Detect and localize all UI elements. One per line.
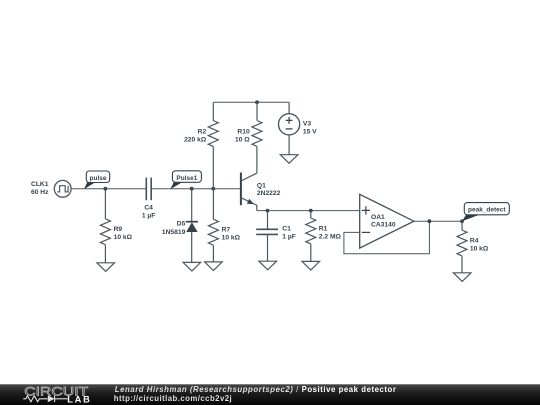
clock source CLK1 <box>54 180 71 197</box>
svg-text:peak_detect: peak_detect <box>468 207 506 214</box>
top rail wire <box>213 101 289 103</box>
emitter rail wire to op-amp <box>257 210 360 212</box>
resistor R7 <box>208 189 218 262</box>
junction dot feedback tap <box>428 219 432 223</box>
svg-text:R10: R10 <box>237 129 250 136</box>
flag peak_detect <box>462 203 509 222</box>
svg-text:LAB: LAB <box>67 395 91 405</box>
svg-text:1N5819: 1N5819 <box>162 229 186 236</box>
junction dot C1 tap <box>266 209 270 213</box>
svg-text:R7: R7 <box>222 226 231 233</box>
ground below R7 <box>205 262 223 271</box>
capacitor C4 <box>146 178 151 201</box>
svg-text:CA3140: CA3140 <box>371 222 396 229</box>
svg-text:15 V: 15 V <box>303 128 317 135</box>
flag pulse <box>84 171 110 189</box>
svg-text:10 kΩ: 10 kΩ <box>114 234 133 241</box>
feedback wire output to inverting input <box>344 221 430 254</box>
CircuitLab logo wordmark <box>24 385 88 399</box>
svg-text:Q1: Q1 <box>257 183 266 190</box>
voltage source V3 <box>279 102 300 154</box>
junction dot R10 top <box>255 100 259 104</box>
svg-text:C4: C4 <box>144 205 153 212</box>
junction dot R1 tap <box>309 209 313 213</box>
resistor R1 <box>306 211 316 262</box>
svg-text:Lenard Hirshman (Researchsuppo: Lenard Hirshman (Researchsupportspec2) /… <box>115 385 397 394</box>
diode D5 <box>186 189 198 263</box>
svg-text:Pulse1: Pulse1 <box>176 175 197 182</box>
svg-text:2N2222: 2N2222 <box>257 190 281 197</box>
ground below C1 <box>259 261 277 270</box>
svg-text:10 kΩ: 10 kΩ <box>470 245 489 252</box>
svg-text:10 Ω: 10 Ω <box>235 137 250 144</box>
capacitor C1 <box>256 211 278 262</box>
resistor R2 <box>208 102 218 188</box>
svg-text:V3: V3 <box>303 120 311 127</box>
svg-text:pulse: pulse <box>90 175 107 182</box>
svg-text:R1: R1 <box>319 225 328 232</box>
svg-text:OA1: OA1 <box>371 214 385 221</box>
junction dot node peak_detect / R4 <box>460 219 464 223</box>
svg-text:220 kΩ: 220 kΩ <box>184 137 207 144</box>
resistor R10 <box>252 102 262 173</box>
svg-text:R4: R4 <box>470 237 479 244</box>
svg-text:D5: D5 <box>177 220 186 227</box>
resistor R4 <box>457 221 467 272</box>
CircuitLab logo circuit glyph <box>23 395 67 402</box>
ground below D5 <box>183 262 201 271</box>
resistor R9 <box>100 189 110 263</box>
flag Pulse1 <box>170 171 201 189</box>
junction dot node Pulse1 / D5 <box>190 187 194 191</box>
transistor Q1 <box>241 173 257 211</box>
ground below V3 <box>280 155 298 164</box>
ground below R9 <box>97 263 115 272</box>
svg-text:R9: R9 <box>114 226 123 233</box>
footer bar <box>0 384 540 405</box>
output wire <box>414 220 462 222</box>
svg-text:R2: R2 <box>198 129 207 136</box>
op-amp OA1 <box>360 194 414 248</box>
wire clock to C4 <box>71 188 146 190</box>
svg-text:1 µF: 1 µF <box>282 233 296 240</box>
svg-text:2.2 MΩ: 2.2 MΩ <box>319 233 342 240</box>
ground below R1 <box>302 261 320 270</box>
svg-text:CLK1: CLK1 <box>31 181 49 188</box>
svg-text:60 Hz: 60 Hz <box>31 189 49 196</box>
svg-text:10 kΩ: 10 kΩ <box>222 234 241 241</box>
svg-text:1 µF: 1 µF <box>142 213 156 220</box>
wire C4 to Q1 base <box>152 188 241 190</box>
junction dot node pulse / R9 <box>104 187 108 191</box>
ground below R4 <box>453 273 471 282</box>
svg-text:C1: C1 <box>282 225 291 232</box>
svg-text:http://circuitlab.com/ccb2v2j: http://circuitlab.com/ccb2v2j <box>114 394 232 403</box>
junction dot node base / R2 / R7 <box>211 187 215 191</box>
